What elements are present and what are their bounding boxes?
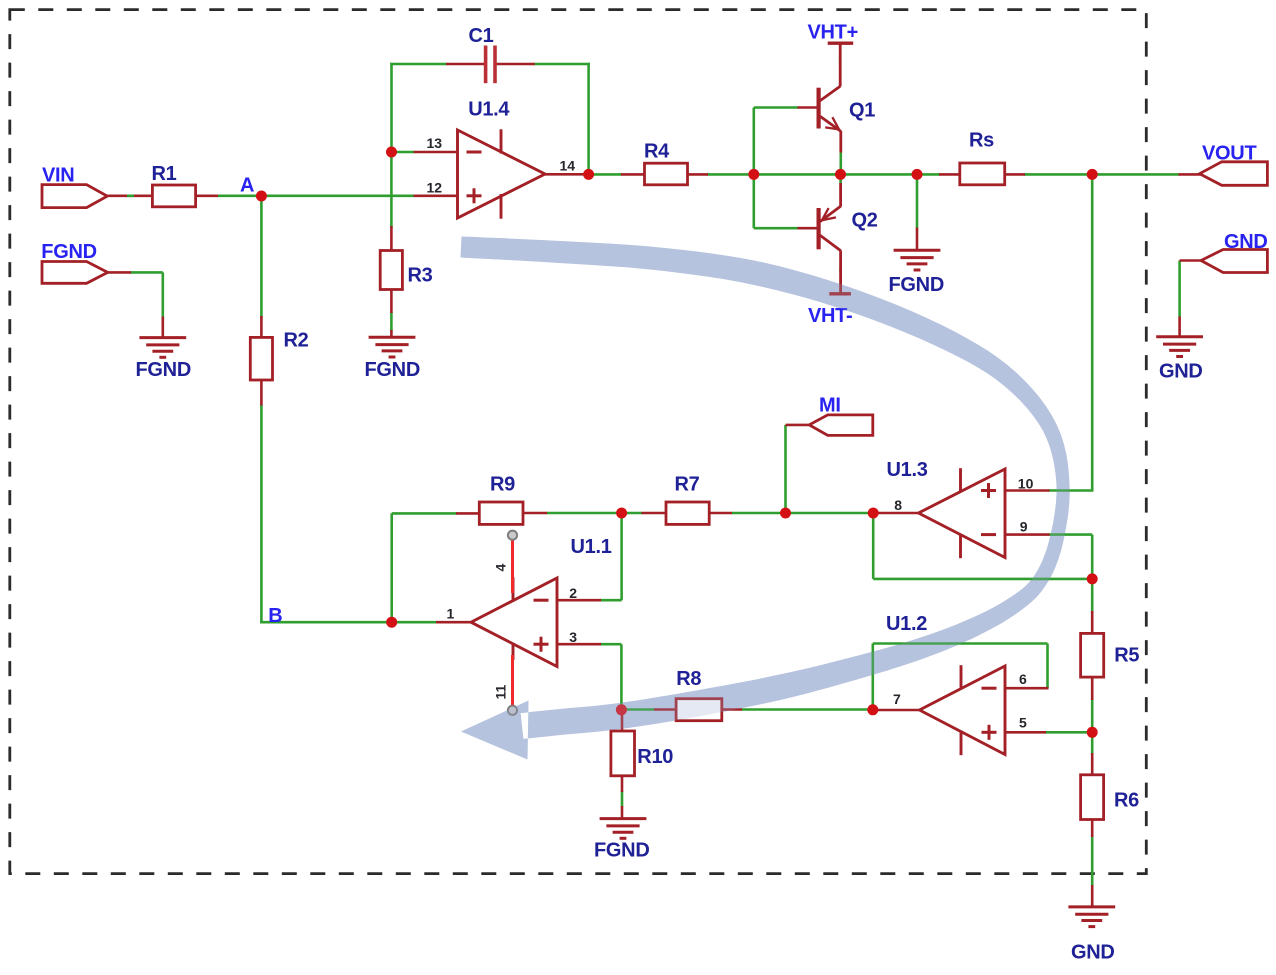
ground FGND under R10 — [600, 819, 647, 839]
node U1.4 output junction — [583, 169, 594, 180]
transistor Q2 — [819, 183, 841, 294]
node pin3/R8/R10 junction — [616, 704, 627, 715]
ground FGND left — [139, 338, 186, 358]
U1.1 pin 4 power stub — [511, 540, 514, 594]
svg-text:R8: R8 — [676, 668, 701, 690]
svg-text:R6: R6 — [1114, 790, 1139, 812]
wire Q2 collector tick — [839, 267, 842, 273]
wire R7 node down to U1.1 pin 2 — [620, 513, 623, 600]
wire net VOUT feedback: vertical down to U1.3 pin 10 — [1091, 174, 1094, 490]
wire lead C1 left — [446, 63, 484, 66]
svg-text:B: B — [268, 605, 282, 627]
svg-text:1: 1 — [447, 605, 455, 621]
wire R8 right to U1.2 pin 7 node — [741, 708, 873, 711]
svg-text:U1.3: U1.3 — [887, 459, 928, 481]
wire lead U1.1 pin 1 output — [436, 621, 472, 624]
capacitor C1 — [486, 46, 495, 84]
wire net C1 feedback: right vertical down to output node — [587, 63, 590, 171]
node VOUT junction — [1087, 169, 1098, 180]
op-amp U1.2 — [920, 665, 1006, 755]
wire R9 right to R7 node — [546, 512, 622, 515]
wire U1.2 pin 6 feedback horizontal — [873, 642, 1048, 645]
svg-text:5: 5 — [1019, 714, 1027, 730]
wire lead U1.2 pin 7 output — [873, 709, 920, 712]
node Q emitters junction — [835, 169, 846, 180]
wire lead VOUT flag — [1179, 173, 1201, 176]
wire net C1 feedback: left vertical down to pin 13 node — [390, 63, 393, 152]
wire lead GND flag ground stem — [1178, 317, 1181, 338]
wire lead U1.1 pin 2 — [556, 599, 601, 602]
op-amp U1.3 — [919, 468, 1006, 558]
wire lead R10 top — [621, 712, 624, 732]
wire U1.3 pin 8 feedback horizontal — [873, 578, 1092, 581]
connector GND — [1201, 250, 1267, 273]
wire Q1 emitter to node — [839, 152, 842, 173]
resistor Rs — [960, 163, 1005, 185]
svg-text:8: 8 — [894, 497, 902, 513]
wire lead MI flag — [786, 424, 811, 427]
wire lead R6 ground stem — [1091, 885, 1094, 908]
wire net B: R2 bottom down to node B — [260, 405, 263, 624]
wire lead Q2 base — [798, 227, 818, 230]
node A junction — [256, 191, 267, 202]
wire U1.2 pin 6 feedback vertical left — [871, 644, 874, 709]
wire lead U1.3 pin 10 — [1004, 489, 1049, 492]
wire node to R6 top — [1091, 732, 1094, 754]
node pin5/R5/R6 junction — [1087, 727, 1098, 738]
resistor R2 — [250, 337, 272, 380]
wire lead U1.2 pin 5 — [1004, 731, 1046, 734]
node MI junction — [780, 508, 791, 519]
wire Q bases vertical rail — [752, 108, 755, 229]
svg-text:R10: R10 — [637, 746, 673, 768]
wire FGND flag vertical — [162, 272, 165, 317]
connector MI — [809, 415, 873, 436]
svg-text:R3: R3 — [408, 265, 433, 287]
wire pin13 node down across pin 12 wire — [390, 152, 393, 197]
svg-text:7: 7 — [893, 691, 901, 707]
svg-text:GND: GND — [1159, 361, 1203, 383]
wire lead R1 right — [196, 195, 218, 198]
wire net A: R1 to node A to U1.4 pin 12 — [217, 195, 415, 198]
svg-text:VOUT: VOUT — [1202, 143, 1256, 165]
wire net C1 feedback: top horizontal left — [390, 63, 447, 66]
wire lead U1.3 pin 9 — [1004, 533, 1049, 536]
svg-text:11: 11 — [493, 684, 509, 699]
wire lead U1.4 pin 14 output — [545, 173, 587, 176]
wire R7 right to MI node — [731, 512, 786, 515]
wire lead R4 right — [687, 173, 708, 176]
wire MI node to U1.3 pin 8 node — [786, 512, 874, 515]
ground GND right — [1156, 337, 1203, 357]
svg-text:VHT+: VHT+ — [808, 22, 858, 44]
node R9/R7/pin2 junction — [616, 508, 627, 519]
wire lead GND flag horizontal — [1180, 259, 1202, 262]
wire lead R3 bottom — [390, 289, 393, 313]
svg-text:GND: GND — [1071, 942, 1115, 964]
wire lead U1.3 pin 8 output — [873, 512, 919, 515]
wire net B: horizontal to node B dot and U1.1 pin 1 — [260, 621, 437, 624]
wire U1.1 pin 3 vertical down to R8 node — [620, 644, 623, 710]
svg-text:C1: C1 — [469, 25, 494, 47]
resistor R1 — [152, 185, 195, 207]
wire net VOUT feedback: horizontal to pin 10 — [1049, 489, 1094, 492]
wire R3 branch: pin 12 net down to R3 — [390, 197, 393, 228]
wire Q1 collector tick — [839, 57, 842, 64]
wire lead VIN to R1 — [106, 195, 153, 198]
wire lead R6 top — [1091, 753, 1094, 775]
connector FGND — [42, 262, 108, 284]
power VHT- — [829, 292, 851, 295]
dashed boundary frame — [10, 10, 1147, 874]
wire R10 bottom tick — [621, 791, 624, 807]
svg-text:MI: MI — [819, 394, 841, 416]
U1.1 pin 11 power stub — [511, 655, 514, 706]
ground FGND mid — [894, 250, 941, 270]
svg-text:R5: R5 — [1114, 645, 1139, 667]
wire lead R7 right — [709, 512, 732, 515]
svg-text:A: A — [240, 175, 254, 197]
wire pin 13 node to U1.4 — [392, 151, 415, 154]
svg-text:U1.1: U1.1 — [571, 536, 612, 558]
wire lead R10 ground stem — [621, 806, 624, 820]
ground FGND under R3 — [369, 337, 416, 357]
wire net VOUT: Rs to VOUT node — [1024, 173, 1092, 176]
wire lead FGND tap stem — [916, 228, 919, 252]
svg-text:4: 4 — [493, 564, 509, 572]
wire lead R2 top — [260, 316, 263, 338]
wire R8 node left tick — [621, 708, 655, 711]
node pin13/C1 junction — [386, 147, 397, 158]
svg-text:13: 13 — [427, 135, 443, 151]
svg-text:FGND: FGND — [136, 359, 191, 381]
svg-text:FGND: FGND — [889, 274, 944, 296]
svg-text:9: 9 — [1020, 519, 1028, 535]
node pin7/R8 junction — [867, 704, 878, 715]
svg-text:3: 3 — [569, 629, 577, 645]
svg-text:6: 6 — [1019, 671, 1027, 687]
wire net C1 feedback: top horizontal right — [534, 63, 590, 66]
svg-text:R7: R7 — [675, 474, 700, 496]
wire lead R9 left — [456, 512, 480, 515]
wire lead R3 top — [390, 226, 393, 251]
resistor R8 — [676, 699, 722, 721]
node Q bases junction — [748, 169, 759, 180]
wire R3 bottom to FGND — [390, 312, 393, 331]
resistor R4 — [645, 163, 688, 185]
resistor R5 — [1081, 633, 1104, 677]
wire lead R2 bottom — [260, 380, 263, 406]
node B junction — [386, 617, 397, 628]
wire lead R7 left — [642, 512, 667, 515]
wire Q2 base horizontal — [754, 227, 799, 230]
resistor R10 — [611, 731, 635, 776]
svg-text:R4: R4 — [644, 141, 670, 163]
wire U1.1 pin 3 horizontal — [600, 643, 621, 646]
watermark arrow overlay — [461, 237, 1070, 760]
svg-text:U1.2: U1.2 — [886, 613, 927, 635]
op-amp U1.1 — [471, 577, 557, 666]
connector VOUT — [1200, 162, 1268, 186]
wire net VIN tick — [127, 195, 134, 198]
wire U1.1 pin 2 horizontal — [600, 599, 622, 602]
wire output net: U1.4 out to R4 — [589, 173, 622, 176]
wire lead R4 left — [621, 173, 645, 176]
wire lead Q1 base — [798, 106, 818, 109]
wire lead R3 ground stem — [390, 330, 393, 338]
op-amp U1.4 — [458, 129, 546, 218]
wire U1.3 pin 9 vertical down to R5 node — [1091, 535, 1094, 579]
wire lead R10 bottom — [621, 775, 624, 792]
wire R5 node down to R5 — [1091, 579, 1094, 612]
wire R9 left horizontal — [392, 512, 457, 515]
wire U1.3 pin 8 feedback vertical — [872, 513, 875, 579]
svg-text:U1.4: U1.4 — [468, 99, 510, 121]
wire lead R5 top — [1091, 611, 1094, 634]
svg-text:VIN: VIN — [42, 165, 74, 187]
svg-text:R9: R9 — [490, 474, 515, 496]
resistor R3 — [380, 251, 402, 290]
wire R7 node lead tick — [622, 512, 643, 515]
svg-text:Q2: Q2 — [852, 210, 878, 232]
wire lead R8 right — [721, 708, 742, 711]
node FGND tap junction — [912, 169, 923, 180]
wire lead FGND flag ground stem — [162, 317, 165, 339]
svg-text:GND: GND — [1224, 231, 1268, 253]
wire Q2 emitter from node — [839, 177, 842, 184]
wire lead R9 right — [523, 512, 548, 515]
wire GND flag vertical — [1178, 261, 1181, 318]
wire lead U1.2 pin 6 — [1004, 687, 1048, 690]
svg-text:14: 14 — [560, 157, 576, 173]
svg-text:R1: R1 — [152, 163, 177, 185]
resistor R6 — [1081, 775, 1104, 820]
wire U1.3 pin 9 horizontal — [1049, 533, 1093, 536]
wire output net: Q emitter node to FGND tap node — [841, 173, 918, 176]
svg-text:FGND: FGND — [594, 840, 649, 862]
wire lead R5 bottom — [1091, 677, 1094, 700]
power VHT+ — [828, 42, 854, 45]
resistor R7 — [666, 502, 709, 524]
ground GND bottom — [1068, 907, 1115, 927]
connector VIN — [42, 185, 107, 208]
svg-text:10: 10 — [1018, 475, 1034, 491]
node pin9/R5 junction — [1087, 573, 1098, 584]
wire R5 bottom to node — [1091, 699, 1094, 732]
svg-text:Q1: Q1 — [849, 100, 875, 122]
watermark arrow base layer — [461, 237, 1070, 760]
wire output net: R4 to Q base node — [707, 173, 754, 176]
wire output net: Q base node to Q emitter node — [754, 173, 841, 176]
wire R6 bottom to GND — [1091, 836, 1094, 886]
wire lead R6 bottom — [1091, 819, 1094, 837]
wire lead U1.1 pin 3 — [556, 643, 601, 646]
svg-text:Rs: Rs — [969, 130, 994, 152]
wire output net: FGND tap node to Rs — [917, 173, 940, 176]
wire Q1 base horizontal — [754, 106, 799, 109]
svg-text:FGND: FGND — [365, 359, 420, 381]
transistor Q1 — [819, 44, 841, 153]
wire net MI vertical — [784, 425, 787, 513]
wire U1.2 pin 6 feedback vertical right — [1046, 644, 1049, 689]
wire lead C1 right — [496, 63, 534, 66]
wire lead U1.4 pin 12 — [414, 195, 458, 198]
wire U1.2 pin 5 to R5/R6 node — [1045, 731, 1092, 734]
wire FGND flag horizontal — [130, 271, 163, 274]
wire net VOUT: node to VOUT flag — [1092, 173, 1179, 176]
wire net B2: R9 vertical down to node B — [390, 513, 393, 622]
wire FGND tap down — [916, 174, 919, 228]
wire lead Rs right — [1004, 173, 1025, 176]
wire lead R8 left — [654, 708, 677, 711]
wire net A: node A down to R2 — [260, 196, 263, 318]
wire lead Rs left — [939, 173, 960, 176]
svg-text:12: 12 — [427, 179, 443, 195]
svg-text:2: 2 — [569, 585, 577, 601]
wire lead FGND flag from tip — [107, 271, 131, 274]
svg-text:FGND: FGND — [41, 241, 96, 263]
resistor R9 — [479, 502, 523, 524]
wire lead U1.4 pin 13 — [414, 151, 458, 154]
node pin8 junction — [868, 508, 879, 519]
svg-text:R2: R2 — [284, 330, 309, 352]
